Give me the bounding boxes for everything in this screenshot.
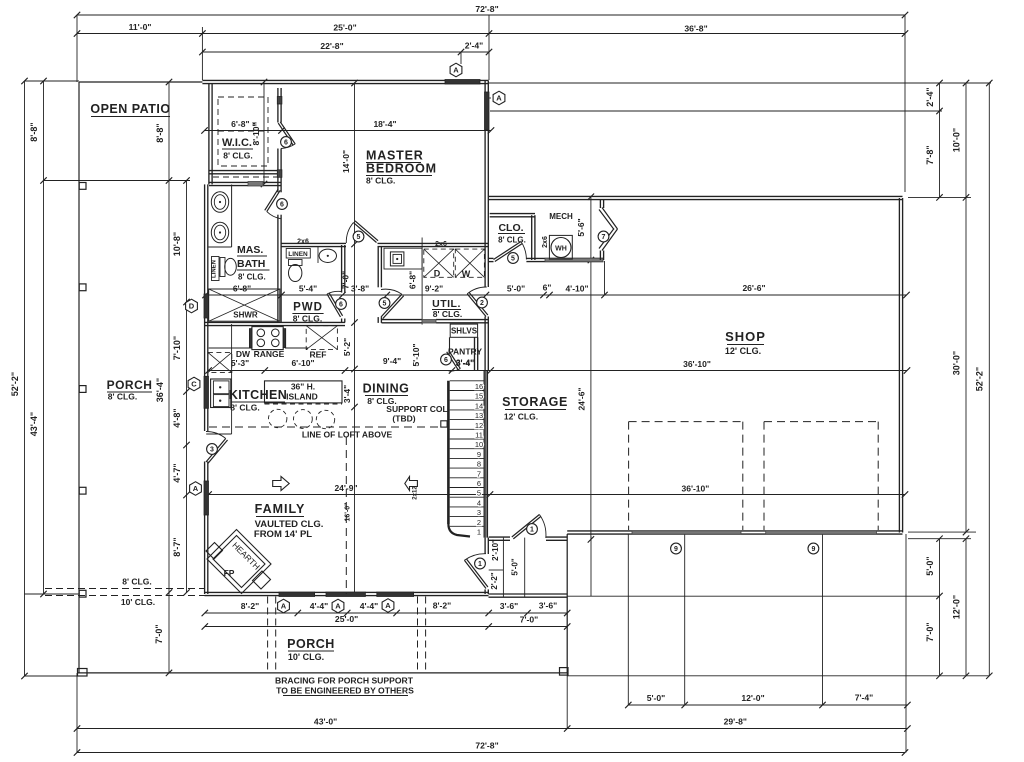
svg-text:A: A [281, 602, 287, 611]
svg-text:6: 6 [444, 357, 448, 364]
svg-text:3'-6": 3'-6" [539, 601, 558, 611]
svg-text:36'-4": 36'-4" [155, 378, 165, 402]
wic door bar upper [277, 97, 282, 105]
bath linen closet [212, 257, 220, 281]
direction arrow left [405, 477, 418, 491]
svg-text:8'-8": 8'-8" [155, 123, 165, 142]
kitchen sink [211, 379, 231, 408]
text MASTER BEDROOM [366, 149, 437, 186]
svg-text:16: 16 [475, 382, 483, 391]
pwd linen [286, 249, 310, 259]
svg-text:25'-0": 25'-0" [333, 23, 356, 33]
svg-text:8: 8 [477, 460, 481, 469]
svg-text:52'-2": 52'-2" [10, 372, 20, 396]
svg-text:18'-4": 18'-4" [373, 119, 396, 129]
svg-text:6: 6 [477, 479, 481, 488]
svg-text:10: 10 [475, 440, 483, 449]
dimension line 12'-0" right lower [952, 536, 970, 680]
svg-text:43'-4": 43'-4" [29, 412, 39, 436]
svg-text:6'-8": 6'-8" [408, 271, 418, 289]
kitchen island [265, 381, 343, 404]
dimension line 72'-8" bottom [74, 741, 908, 756]
svg-text:3: 3 [477, 508, 481, 517]
svg-text:A: A [335, 602, 341, 611]
svg-text:5: 5 [383, 301, 387, 308]
svg-text:14'-0": 14'-0" [341, 150, 351, 173]
svg-text:22'-8": 22'-8" [320, 41, 343, 51]
window tag D west [186, 299, 198, 313]
svg-text:12: 12 [475, 421, 483, 430]
svg-text:SHWR: SHWR [233, 311, 258, 320]
extension line y=111 right wing [490, 110, 942, 112]
dimension line windows 8'-2"/4'-4"/4'-4"/8'-2"/3'-6"/3'-6" [202, 601, 571, 617]
dimension lines entry alcove [489, 538, 525, 597]
svg-text:FP: FP [224, 568, 235, 578]
dimension line 52'-2" right [975, 80, 993, 679]
svg-text:10'-8": 10'-8" [172, 232, 182, 256]
north wall [202, 80, 488, 83]
svg-text:1: 1 [477, 528, 481, 537]
text W.I.C. [222, 137, 253, 161]
svg-text:11'-0": 11'-0" [129, 22, 152, 32]
svg-text:12'-0": 12'-0" [741, 693, 764, 703]
shower [209, 289, 280, 321]
hearth fireplace [206, 530, 271, 594]
svg-text:2x6: 2x6 [297, 239, 309, 246]
extension line x=202 top [201, 27, 203, 80]
dimension 5'-10" pantry [411, 343, 421, 366]
util south wall [382, 320, 489, 323]
dimension line 22'-8" / 2'-4" [199, 41, 492, 56]
porch column 1 [79, 183, 86, 190]
dim 7'-0" pwd [341, 271, 351, 289]
text BRACING FOR PORCH SUPPORT [275, 676, 414, 696]
svg-text:7'-0": 7'-0" [520, 615, 539, 625]
svg-text:A: A [385, 601, 391, 610]
dimension line 2'-4" / 7'-8" right [925, 80, 943, 201]
svg-text:4'-10": 4'-10" [565, 284, 588, 294]
window south wall 2 [326, 592, 365, 597]
window west wall D [204, 294, 209, 318]
south wall segment 3 [365, 592, 376, 595]
svg-text:BEDROOM: BEDROOM [366, 162, 437, 176]
vanity sink 1 [211, 192, 228, 213]
svg-text:2'-2": 2'-2" [490, 572, 499, 589]
svg-text:7: 7 [602, 234, 606, 241]
svg-text:SHOP: SHOP [725, 329, 766, 344]
dimension line y=130.5 (6'-8" / 18'-4") [201, 119, 494, 134]
svg-text:6: 6 [284, 140, 288, 147]
text LINE OF LOFT ABOVE [302, 430, 393, 440]
extension line x=906 bottom [905, 534, 907, 753]
svg-text:LINE OF LOFT ABOVE: LINE OF LOFT ABOVE [302, 430, 393, 440]
svg-text:C: C [191, 380, 197, 389]
svg-text:WH: WH [555, 246, 567, 253]
dimension line 10'-0" / 30'-0" right [952, 80, 970, 536]
svg-text:2'-4": 2'-4" [925, 87, 935, 106]
water heater WH [551, 238, 571, 258]
svg-text:16'-0": 16'-0" [345, 503, 352, 522]
svg-text:72'-8": 72'-8" [475, 4, 498, 14]
svg-text:9'-2": 9'-2" [425, 284, 443, 294]
svg-text:D: D [434, 269, 441, 279]
svg-text:W.I.C.: W.I.C. [222, 137, 252, 149]
door 7 shop [598, 208, 617, 251]
range [249, 327, 285, 350]
svg-text:1: 1 [530, 527, 534, 534]
dim 2x6 pwd wall [297, 239, 309, 246]
extension line x=489 top [488, 15, 490, 80]
stairs tread numbers [475, 382, 483, 537]
svg-text:8' CLG.: 8' CLG. [108, 392, 137, 402]
svg-text:10' CLG.: 10' CLG. [288, 652, 324, 662]
svg-text:7'-10": 7'-10" [172, 336, 182, 360]
text MAS. BATH [237, 244, 270, 282]
entry south wall [489, 594, 568, 597]
svg-text:4'-4": 4'-4" [360, 601, 379, 611]
tick line y=538.7 right [908, 538, 971, 540]
svg-text:8' CLG.: 8' CLG. [366, 176, 395, 186]
bath toilet [220, 258, 236, 277]
svg-text:3'-6": 3'-6" [500, 601, 519, 611]
svg-text:12' CLG.: 12' CLG. [504, 412, 538, 422]
svg-text:7'-0": 7'-0" [154, 624, 164, 643]
svg-text:36'-10": 36'-10" [682, 484, 710, 494]
window tag A south wall 3 [382, 599, 394, 613]
window south wall 1 [279, 592, 315, 597]
svg-text:A: A [193, 484, 199, 493]
porch left edge [78, 82, 80, 673]
porch interior dim line x=186.5 [172, 177, 190, 595]
extension line x=591 storage corner [590, 536, 592, 596]
garage door 1 centerline [684, 534, 686, 705]
svg-text:8' CLG.: 8' CLG. [122, 577, 151, 587]
text CLO. [498, 222, 526, 245]
util pocket door [422, 320, 436, 324]
extension line left x=77 [76, 15, 78, 82]
svg-text:7'-4": 7'-4" [855, 693, 874, 703]
west wall (window C to door 3) [205, 409, 208, 432]
svg-text:PANTRY: PANTRY [448, 347, 482, 357]
hall/util west wall [378, 247, 381, 323]
svg-text:2: 2 [480, 300, 484, 307]
tick line bottom 52-2 [25, 675, 80, 677]
svg-text:KITCHEN: KITCHEN [229, 388, 287, 402]
svg-text:(TBD): (TBD) [392, 414, 415, 424]
garage door 2 dashed outline [764, 422, 878, 530]
mech east wall [600, 200, 603, 261]
svg-text:2: 2 [477, 518, 481, 527]
svg-text:72'-8": 72'-8" [475, 741, 498, 751]
bath/pwd wall [278, 245, 281, 323]
west wall W.I.C. section [209, 84, 212, 185]
window tag A top wall [450, 63, 462, 77]
porch east edge [566, 534, 568, 673]
svg-text:25'-0": 25'-0" [335, 614, 358, 624]
door tag 9 garage 1 [671, 543, 682, 554]
svg-text:D: D [189, 302, 195, 311]
text OPEN PATIO [90, 102, 170, 117]
east wall (door 2 to dining) [485, 317, 488, 372]
svg-text:7'-0": 7'-0" [341, 271, 351, 289]
svg-text:CLO.: CLO. [498, 222, 523, 234]
south wall segment 2 [315, 592, 326, 595]
svg-text:9: 9 [674, 546, 678, 553]
svg-text:2x6: 2x6 [435, 241, 447, 248]
svg-text:FAMILY: FAMILY [255, 502, 306, 516]
svg-text:DINING: DINING [363, 382, 410, 396]
svg-text:2'-10": 2'-10" [491, 539, 500, 561]
svg-text:12' CLG.: 12' CLG. [725, 346, 761, 356]
svg-text:36'-8": 36'-8" [684, 24, 707, 34]
west wall (door 3 to window A) [205, 462, 208, 482]
text SHOP [725, 329, 766, 356]
svg-text:43'-0": 43'-0" [314, 717, 337, 727]
util counter [384, 248, 422, 269]
island stools dashed [269, 409, 335, 428]
svg-text:7'-0": 7'-0" [925, 622, 935, 641]
svg-text:8'-8": 8'-8" [29, 122, 39, 141]
svg-text:10'-0": 10'-0" [952, 128, 962, 152]
svg-text:8'-7": 8'-7" [172, 537, 182, 556]
loft dashed line vertical [345, 437, 347, 594]
svg-text:13: 13 [475, 411, 483, 420]
shop north wall [489, 196, 903, 199]
svg-text:FROM 14' PL: FROM 14' PL [254, 529, 312, 540]
door 1 storage [512, 515, 546, 539]
svg-text:30'-0": 30'-0" [952, 351, 962, 375]
svg-text:5'-2": 5'-2" [342, 338, 352, 356]
extension line y=596 right [567, 595, 939, 597]
porch bottom edge [78, 672, 568, 674]
text DINING [363, 382, 410, 407]
svg-text:8'-2": 8'-2" [241, 601, 260, 611]
svg-text:3: 3 [210, 447, 214, 454]
tick line bottom 43-4 [25, 593, 80, 595]
window tag A east [489, 91, 505, 105]
pwd toilet [289, 260, 303, 282]
east wall stairs section [484, 371, 487, 538]
text PWD [292, 302, 323, 324]
dimension line 25'-0" / 7'-0" porch [202, 614, 571, 630]
svg-text:12'-0": 12'-0" [952, 595, 962, 619]
clo north wall [490, 214, 535, 217]
patio bottom line [44, 180, 191, 182]
svg-text:5'-10": 5'-10" [411, 343, 421, 366]
svg-text:9: 9 [811, 546, 815, 553]
dimension line x=355 interior [341, 80, 358, 594]
svg-text:8' CLG.: 8' CLG. [238, 273, 266, 282]
garage door 1 dashed outline [629, 422, 743, 530]
text PORCH 8' CLG. [107, 378, 153, 402]
svg-text:2x6: 2x6 [542, 236, 549, 248]
garage door 2 panel [766, 531, 877, 534]
svg-text:6'-8": 6'-8" [233, 284, 251, 294]
window top wall [445, 80, 480, 85]
window south wall 3 [377, 592, 414, 597]
dimension line 52'-2" left [10, 78, 28, 679]
svg-text:DW: DW [236, 349, 251, 359]
svg-text:RANGE: RANGE [254, 349, 285, 359]
extension line x=461 window A [460, 52, 462, 64]
extension line y=675.8 right [567, 675, 989, 677]
svg-text:8'-2": 8'-2" [433, 601, 452, 611]
text SUPPORT COL [386, 404, 447, 424]
east wall upper (to window A) [485, 81, 488, 93]
svg-text:8' CLG.: 8' CLG. [230, 403, 259, 413]
pantry west wall [449, 337, 451, 351]
door 2 util [467, 287, 488, 317]
util sink [390, 252, 404, 266]
dimension line 5'-0" / 7'-0" right lower [925, 536, 943, 680]
direction arrow right [273, 477, 290, 491]
svg-text:36'-10": 36'-10" [683, 359, 711, 369]
svg-text:6'-10": 6'-10" [291, 358, 314, 368]
dimension line 11'-0" / 25'-0" / 36'-8" [74, 22, 908, 37]
dimension line x=422 (6'-8") [408, 238, 423, 325]
pantry shelves box [450, 324, 478, 337]
wic pocket door [248, 182, 263, 187]
kitchen counter edge [206, 324, 308, 434]
dimension line y=370.5 kitchen/storage [205, 356, 910, 374]
porch column 4 [79, 487, 86, 494]
support column [441, 421, 447, 427]
west wall upper [205, 184, 208, 296]
loft dashed line horizontal [209, 426, 441, 428]
dim 2x6 util [435, 241, 447, 248]
kitchen north wall [205, 322, 346, 325]
west wall lower [205, 515, 208, 594]
mech south pocket door [545, 258, 603, 262]
svg-text:MECH: MECH [549, 212, 573, 221]
text UTIL. [432, 298, 462, 319]
svg-text:9: 9 [477, 450, 481, 459]
svg-text:8'-10": 8'-10" [251, 122, 261, 145]
svg-text:OPEN PATIO: OPEN PATIO [90, 102, 170, 116]
window tag A south wall 2 [332, 599, 344, 613]
garage door 1 panel [632, 531, 741, 534]
tick line y=532 right [908, 531, 976, 533]
svg-text:A: A [496, 94, 502, 103]
wic south wall upper [209, 171, 281, 174]
svg-text:26'-6": 26'-6" [742, 283, 765, 293]
storage south wall [489, 537, 568, 540]
extension line x=77 bottom [76, 673, 78, 753]
extension line x=628.3 garage [627, 534, 629, 705]
garage door 2 centerline [822, 534, 824, 705]
dimension line x=264 (8'-10") [251, 79, 267, 187]
pantry east wall [475, 337, 478, 370]
svg-text:5'-0": 5'-0" [507, 284, 525, 294]
clo east wall [532, 215, 535, 260]
pwd door 6 [327, 291, 346, 317]
master south wall [282, 243, 489, 246]
vanity sink 2 [211, 222, 228, 243]
svg-text:15: 15 [475, 392, 483, 401]
text FAMILY [254, 502, 324, 540]
porch column 3 [79, 386, 86, 393]
svg-text:10' CLG.: 10' CLG. [121, 597, 155, 607]
svg-text:6: 6 [339, 302, 343, 309]
svg-text:29'-8": 29'-8" [724, 717, 747, 727]
text STORAGE [502, 395, 568, 422]
svg-text:PORCH: PORCH [107, 378, 153, 392]
svg-text:ISLAND: ISLAND [286, 392, 318, 402]
svg-text:5: 5 [511, 256, 515, 263]
extension line x=905 top right [904, 15, 906, 192]
pantry door 6 [441, 351, 461, 372]
svg-text:PWD: PWD [293, 302, 323, 314]
svg-text:LINEN: LINEN [212, 260, 218, 278]
wic south wall lower [209, 182, 281, 185]
text PORCH 10' CLG. [287, 637, 335, 662]
door 3 family [206, 431, 228, 463]
svg-text:5'-0": 5'-0" [925, 556, 935, 575]
svg-text:3'-4": 3'-4" [456, 358, 474, 368]
dimension line y=295 hall [202, 283, 909, 299]
svg-text:STORAGE: STORAGE [502, 395, 568, 409]
porch column SE corner [560, 668, 569, 676]
stairs treads [450, 381, 485, 527]
door 5 clo [494, 242, 527, 264]
svg-text:11: 11 [475, 431, 483, 440]
dimension line 5'-0"/12'-0"/7'-4" garage [625, 693, 911, 709]
svg-text:2'-4": 2'-4" [465, 41, 484, 51]
text PANTRY [448, 347, 482, 369]
window tag A south wall 1 [278, 599, 290, 613]
wic shelving dashed [213, 97, 277, 177]
svg-text:9'-4": 9'-4" [383, 356, 401, 366]
svg-text:LINEN: LINEN [288, 251, 308, 258]
porch bracing dashed pair 1 [268, 597, 276, 673]
open patio top edge [79, 81, 202, 83]
svg-text:8' CLG.: 8' CLG. [223, 151, 252, 161]
dimension line x=590.9 (5'-6" / 24'-6") [576, 194, 594, 543]
svg-text:5: 5 [357, 234, 361, 241]
svg-text:6: 6 [280, 202, 284, 209]
svg-text:5'-0": 5'-0" [511, 558, 520, 575]
extension line y=83 right wing [489, 82, 992, 84]
east wall (window A to door 2) [485, 130, 488, 287]
door 5 hall [379, 289, 404, 318]
svg-text:5'-3": 5'-3" [231, 358, 249, 368]
window west wall A [204, 481, 209, 515]
svg-text:36" H.: 36" H. [291, 382, 315, 392]
shop south wall [567, 531, 902, 534]
svg-text:5'-6": 5'-6" [576, 218, 586, 236]
dim 2x6 mech wall [542, 236, 549, 248]
porch column SW corner [78, 669, 88, 677]
tick line y=197.4 right [908, 196, 971, 198]
dishwasher dashed [208, 352, 232, 372]
porch interior dim line x=169 [154, 79, 172, 676]
extension line x=567.2 bottom [566, 534, 568, 729]
east wall entry (door 1 jambs) [485, 538, 488, 594]
text KITCHEN [229, 388, 287, 413]
text DW RANGE REF [236, 349, 327, 360]
porch bracing dashed pair 2 [418, 597, 426, 673]
svg-text:7: 7 [477, 469, 481, 478]
ceiling break dashed lines [45, 577, 205, 608]
shop east wall [899, 198, 902, 533]
wic east wall [278, 88, 281, 245]
dimension line 72'-8" overall top [74, 4, 908, 18]
svg-text:6": 6" [543, 283, 552, 293]
porch column 2 [79, 284, 86, 291]
west wall (window D to window C) [205, 316, 208, 376]
door tag 9 garage 2 [808, 543, 819, 554]
svg-text:MAS.: MAS. [237, 244, 263, 256]
